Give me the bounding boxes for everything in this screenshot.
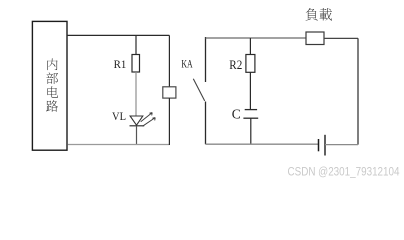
text R1: [114, 59, 127, 71]
svg-text:C: C: [232, 106, 241, 121]
wire coil branch top: [168, 35, 170, 86]
wire bottom-right horizontal: [206, 143, 319, 145]
wire battery to right: [325, 144, 358, 146]
wire top-right horizontal left segment: [206, 37, 307, 39]
wire below LED: [136, 126, 138, 145]
wire top-right horizontal right segment: [324, 37, 358, 39]
svg-text:VL: VL: [112, 111, 126, 123]
LED VL arrow 1: [141, 113, 153, 122]
LED VL cathode bar: [130, 125, 145, 127]
resistor R1: [132, 55, 140, 73]
text 路: [46, 100, 58, 112]
wire bottom-left horizontal: [68, 144, 170, 146]
switch KA lower wire: [205, 102, 207, 145]
capacitor C top plate: [245, 109, 257, 111]
load box: [306, 32, 324, 45]
box internal-circuit: [32, 21, 67, 150]
battery short plate: [318, 139, 320, 151]
wire top-left horizontal: [67, 34, 169, 36]
switch KA blade: [193, 79, 204, 101]
wire below C: [250, 118, 252, 144]
svg-text:R1: R1: [114, 59, 127, 71]
wire below R1: [135, 72, 137, 116]
capacitor C bottom plate: [243, 117, 258, 119]
text VL: [112, 111, 126, 123]
wire R2 branch top: [249, 38, 251, 55]
wire coil branch bottom: [168, 98, 170, 145]
wire right vertical: [357, 38, 359, 144]
wire R2 to C: [249, 72, 251, 109]
svg-text:R2: R2: [229, 58, 242, 72]
text R2: [229, 58, 242, 72]
text 部: [46, 72, 58, 84]
text 负: [305, 8, 317, 21]
text KA: [181, 59, 193, 71]
watermark CSDN: [288, 166, 401, 178]
LED VL triangle: [130, 116, 143, 125]
text 载: [320, 8, 332, 20]
text 电: [47, 86, 58, 97]
text 内: [47, 59, 57, 71]
resistor R2: [246, 55, 255, 73]
wire R1 branch top: [135, 35, 137, 54]
text C: [232, 106, 241, 121]
battery long plate: [324, 135, 326, 156]
LED VL arrow 2: [143, 118, 156, 127]
relay coil KA box: [163, 87, 176, 98]
svg-text:CSDN @2301_79312104: CSDN @2301_79312104: [288, 166, 401, 178]
svg-text:KA: KA: [181, 59, 193, 71]
switch KA upper contact: [205, 37, 207, 82]
